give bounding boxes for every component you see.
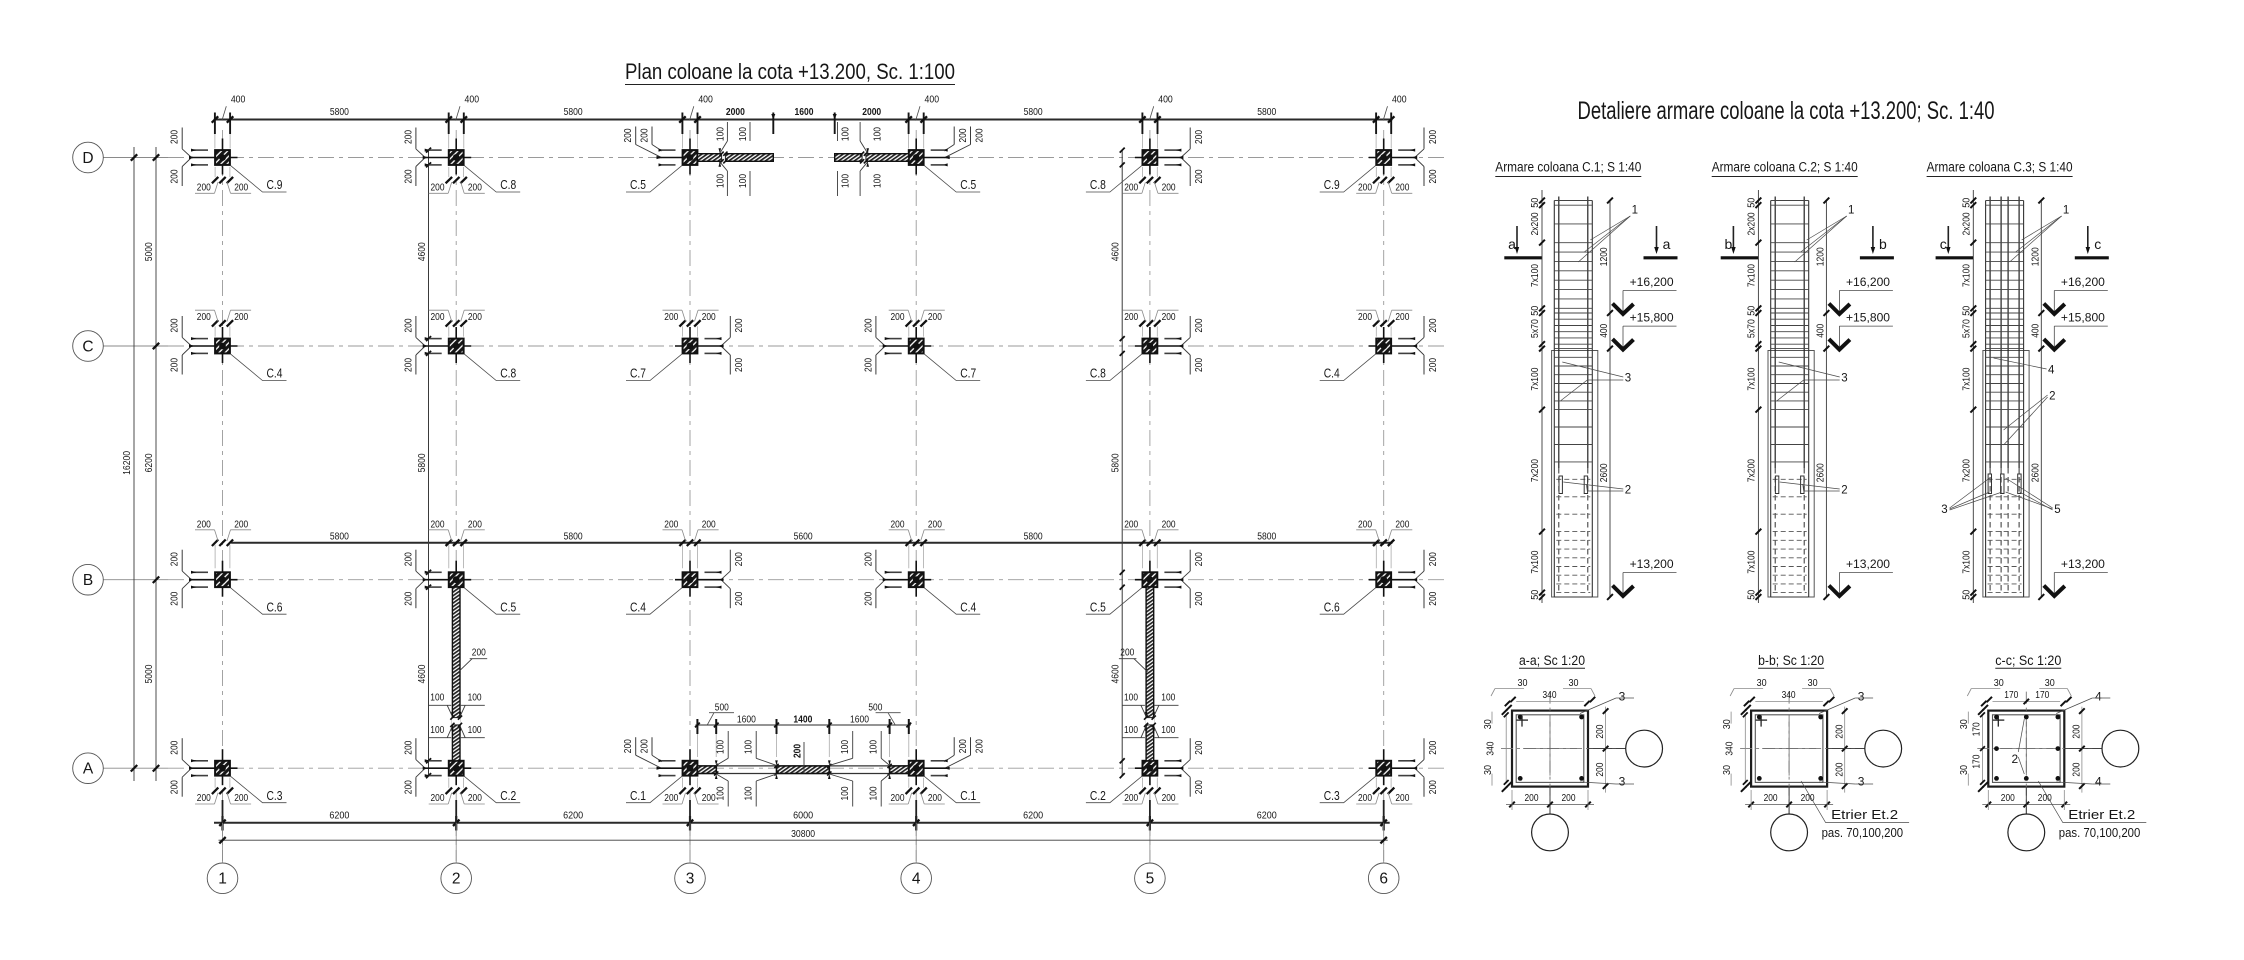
svg-text:7x100: 7x100	[1747, 550, 1758, 573]
right dimension line 1200/400/2600 C.2	[1816, 198, 1830, 600]
grid bubble 5	[1135, 863, 1166, 894]
svg-text:170: 170	[1972, 722, 1983, 736]
svg-text:30: 30	[1518, 678, 1528, 689]
vertical dimension chain line 2 (4600/5800/4600)	[417, 148, 431, 779]
svg-text:200: 200	[639, 128, 650, 142]
svg-text:1600: 1600	[737, 714, 756, 725]
svg-text:3: 3	[1841, 373, 1847, 385]
svg-text:200: 200	[2072, 724, 2083, 738]
svg-text:6: 6	[1379, 871, 1388, 888]
svg-text:200: 200	[1395, 793, 1409, 804]
svg-text:200: 200	[792, 744, 803, 758]
section mark a-a C.1	[1504, 226, 1677, 258]
svg-text:C.4: C.4	[630, 600, 646, 614]
grid bubble 1	[207, 863, 238, 894]
svg-text:200: 200	[1428, 130, 1439, 144]
svg-text:200: 200	[170, 130, 181, 144]
column C.5 at B5	[1086, 519, 1205, 614]
svg-text:200: 200	[1428, 591, 1439, 605]
svg-text:5x70: 5x70	[1747, 319, 1758, 338]
section bottom dimensions a-a	[1506, 790, 1594, 810]
svg-text:200: 200	[170, 780, 181, 794]
svg-text:200: 200	[403, 552, 414, 566]
svg-text:200: 200	[1124, 793, 1138, 804]
bar label 2 c-c	[2011, 719, 2024, 774]
vertical dimension chain line 5 (4600/5800/4600)	[1111, 148, 1125, 779]
svg-text:200: 200	[639, 739, 650, 753]
svg-text:3: 3	[1619, 689, 1626, 703]
svg-text:30: 30	[1483, 765, 1494, 775]
svg-text:1: 1	[1632, 204, 1638, 216]
svg-text:2000: 2000	[862, 107, 881, 118]
left stirrup spacing chain C.3	[1961, 190, 1976, 603]
section top dimensions a-a	[1491, 678, 1595, 706]
row B dimension chain	[231, 532, 1392, 543]
callout 3 C.2	[1777, 362, 1848, 401]
svg-text:C.6: C.6	[267, 600, 283, 614]
svg-text:200: 200	[702, 793, 716, 804]
svg-text:200: 200	[234, 183, 248, 194]
svg-text:200: 200	[1395, 519, 1409, 530]
grid axis 5	[1149, 130, 1151, 861]
column C.3 at A1	[170, 738, 287, 804]
column C.9 at D6	[1320, 128, 1439, 194]
svg-text:C.4: C.4	[1324, 367, 1340, 381]
detail title Armare coloana C.3	[1927, 160, 2073, 177]
svg-text:Armare coloana C.3; S 1:40: Armare coloana C.3; S 1:40	[1927, 160, 2073, 175]
svg-text:200: 200	[958, 128, 969, 142]
wall on axis 2 between rows B and A	[429, 587, 488, 761]
svg-text:5600: 5600	[794, 532, 813, 543]
grid bubble 6	[1368, 863, 1399, 894]
svg-text:4: 4	[2048, 364, 2055, 376]
svg-text:200: 200	[403, 130, 414, 144]
svg-text:200: 200	[1428, 552, 1439, 566]
svg-text:3: 3	[1858, 775, 1865, 789]
svg-text:200: 200	[1428, 780, 1439, 794]
svg-text:100: 100	[716, 127, 727, 141]
svg-text:100: 100	[1161, 693, 1175, 704]
section left dimensions a-a	[1483, 705, 1512, 792]
svg-text:C.6: C.6	[1324, 600, 1340, 614]
svg-text:200: 200	[664, 519, 678, 530]
svg-text:50: 50	[1961, 589, 1972, 599]
svg-text:C.9: C.9	[267, 178, 283, 192]
svg-text:C.5: C.5	[630, 178, 646, 192]
section mark b-b C.2	[1721, 226, 1894, 258]
svg-text:200: 200	[431, 793, 445, 804]
svg-text:200: 200	[2072, 762, 2083, 776]
svg-text:200: 200	[403, 318, 414, 332]
svg-text:1200: 1200	[1816, 247, 1827, 266]
grid axis B	[104, 579, 1448, 581]
svg-text:C.4: C.4	[267, 367, 283, 381]
callout 2 C.2	[1780, 482, 1848, 497]
svg-text:200: 200	[170, 740, 181, 754]
svg-text:7x200: 7x200	[1747, 459, 1758, 482]
column C.4 at B3	[626, 519, 745, 614]
wall row D between axes 3 and 4, right segment	[835, 122, 909, 196]
svg-text:200: 200	[1124, 183, 1138, 194]
svg-text:50: 50	[1961, 305, 1972, 315]
svg-text:7x200: 7x200	[1961, 459, 1972, 482]
column C.5 at D4	[901, 127, 985, 193]
grid axis D	[104, 157, 1448, 159]
svg-text:Etrier Et.2: Etrier Et.2	[2068, 807, 2135, 822]
svg-text:2x200: 2x200	[1530, 212, 1541, 235]
svg-text:200: 200	[1428, 169, 1439, 183]
svg-text:+16,200: +16,200	[1846, 277, 1890, 289]
svg-text:C.8: C.8	[1090, 367, 1106, 381]
svg-text:5800: 5800	[1111, 453, 1122, 472]
svg-text:200: 200	[664, 312, 678, 323]
svg-text:2600: 2600	[1599, 463, 1610, 482]
svg-text:200: 200	[1428, 740, 1439, 754]
detail title Armare coloana C.2	[1712, 160, 1858, 177]
grid axis 4	[915, 130, 917, 861]
wall row A between axes 3 and 4 with dimension chain 500/1600/1400/1600/500	[695, 703, 911, 807]
svg-text:4600: 4600	[417, 664, 428, 683]
svg-text:200: 200	[170, 358, 181, 372]
svg-text:200: 200	[664, 793, 678, 804]
svg-text:100: 100	[873, 174, 884, 188]
svg-text:400: 400	[2031, 323, 2042, 337]
level marker +15,800 C.3	[2044, 313, 2108, 350]
svg-text:a: a	[1663, 236, 1671, 252]
svg-text:c: c	[1940, 236, 1947, 252]
svg-text:2600: 2600	[2031, 463, 2042, 482]
svg-text:200: 200	[1162, 793, 1176, 804]
callout 3 C.3	[1941, 478, 2002, 516]
svg-text:200: 200	[468, 793, 482, 804]
column C.4 at C6	[1320, 310, 1439, 380]
svg-text:5000: 5000	[144, 242, 155, 261]
svg-text:100: 100	[716, 174, 727, 188]
svg-text:340: 340	[1724, 741, 1735, 755]
top dimension chain row D	[212, 95, 1407, 149]
plan title	[625, 59, 955, 85]
grid bubble 2	[441, 863, 472, 894]
level marker +15,800 C.2	[1829, 313, 1893, 350]
svg-text:+15,800: +15,800	[1630, 313, 1674, 325]
svg-text:50: 50	[1747, 305, 1758, 315]
svg-text:200: 200	[403, 169, 414, 183]
svg-text:200: 200	[734, 552, 745, 566]
grid axis 3	[689, 130, 691, 861]
svg-text:b: b	[1725, 236, 1733, 252]
svg-text:200: 200	[891, 793, 905, 804]
svg-text:170: 170	[2035, 690, 2049, 701]
svg-text:a: a	[1508, 236, 1516, 252]
svg-text:30: 30	[1959, 765, 1970, 775]
svg-text:500: 500	[715, 703, 729, 714]
svg-text:7x100: 7x100	[1961, 550, 1972, 573]
svg-text:200: 200	[2001, 793, 2015, 804]
section right dimensions b-b	[1834, 707, 1847, 793]
svg-text:5800: 5800	[417, 453, 428, 472]
wall row D between axes 3 and 4, left segment	[697, 122, 773, 196]
svg-text:7x100: 7x100	[1961, 264, 1972, 287]
svg-text:C.5: C.5	[1090, 600, 1106, 614]
svg-text:200: 200	[1562, 793, 1576, 804]
svg-text:200: 200	[472, 648, 486, 659]
svg-text:1400: 1400	[793, 714, 812, 725]
section right dimensions a-a	[1595, 707, 1608, 793]
svg-text:b-b; Sc 1:20: b-b; Sc 1:20	[1758, 653, 1824, 668]
svg-text:200: 200	[928, 793, 942, 804]
column C.9 at D1	[170, 128, 287, 194]
svg-text:3: 3	[1625, 373, 1631, 385]
svg-text:C.2: C.2	[500, 789, 516, 803]
grid axis 1	[222, 130, 224, 861]
stirrup label Etrier Et.2 c-c	[2038, 781, 2146, 840]
svg-text:1: 1	[2063, 204, 2069, 216]
svg-text:C.1: C.1	[630, 789, 646, 803]
svg-text:200: 200	[863, 591, 874, 605]
svg-text:16200: 16200	[122, 451, 133, 475]
level marker +16,200 C.1	[1613, 277, 1677, 314]
svg-text:D: D	[82, 150, 93, 167]
svg-text:C.7: C.7	[960, 367, 976, 381]
level marker +16,200 C.2	[1829, 277, 1893, 314]
column C.5 at D3	[623, 127, 705, 193]
svg-text:+13,200: +13,200	[2061, 559, 2105, 571]
svg-text:5800: 5800	[1257, 107, 1276, 118]
svg-text:200: 200	[974, 739, 985, 753]
svg-text:200: 200	[468, 183, 482, 194]
svg-text:4: 4	[912, 871, 921, 888]
section square c-c	[1977, 692, 2101, 815]
column C.7 at C3	[626, 310, 745, 380]
level marker +13,200 C.3	[2044, 559, 2108, 596]
bottom dimension total 30800	[219, 828, 1388, 844]
svg-text:3: 3	[1619, 775, 1626, 789]
callout 5 C.3	[2006, 478, 2061, 516]
svg-text:200: 200	[234, 312, 248, 323]
svg-text:200: 200	[891, 519, 905, 530]
section square b-b	[1740, 692, 1864, 815]
column C.7 at C4	[863, 310, 980, 380]
svg-text:6000: 6000	[793, 810, 813, 822]
svg-text:2x200: 2x200	[1747, 212, 1758, 235]
column elevation C.3	[1983, 197, 2029, 598]
svg-text:1: 1	[218, 871, 227, 888]
svg-text:100: 100	[869, 740, 880, 754]
svg-text:5800: 5800	[564, 107, 583, 118]
svg-text:50: 50	[1747, 197, 1758, 207]
svg-text:200: 200	[197, 793, 211, 804]
svg-text:200: 200	[431, 312, 445, 323]
svg-text:200: 200	[170, 591, 181, 605]
callout 2 C.1	[1563, 482, 1631, 497]
svg-text:C.4: C.4	[960, 600, 976, 614]
svg-text:6200: 6200	[329, 810, 349, 822]
svg-text:200: 200	[1120, 648, 1134, 659]
svg-text:400: 400	[1599, 323, 1610, 337]
svg-text:200: 200	[1162, 312, 1176, 323]
svg-text:30: 30	[1722, 765, 1733, 775]
left stirrup spacing chain C.2	[1747, 190, 1762, 603]
left dimension chain total 16200	[122, 147, 137, 781]
svg-text:4600: 4600	[1111, 242, 1122, 261]
svg-text:5000: 5000	[144, 664, 155, 683]
column elevation C.2	[1768, 197, 1814, 598]
svg-text:170: 170	[2004, 690, 2018, 701]
section bottom dimensions b-b	[1745, 790, 1833, 810]
svg-text:200: 200	[1194, 740, 1205, 754]
svg-text:200: 200	[1194, 780, 1205, 794]
svg-text:200: 200	[1194, 130, 1205, 144]
svg-text:340: 340	[1782, 690, 1796, 701]
column C.1 at A3	[623, 737, 719, 804]
svg-text:pas. 70,100,200: pas. 70,100,200	[1822, 825, 1904, 840]
callout 3 C.1	[1560, 362, 1631, 401]
svg-text:6200: 6200	[563, 810, 583, 822]
svg-text:1200: 1200	[1599, 247, 1610, 266]
svg-text:5: 5	[2054, 504, 2060, 516]
svg-text:200: 200	[234, 519, 248, 530]
svg-text:3: 3	[1858, 689, 1865, 703]
svg-text:200: 200	[1124, 519, 1138, 530]
column C.5 at B2	[403, 519, 520, 614]
svg-text:200: 200	[1595, 762, 1606, 776]
svg-text:2600: 2600	[1816, 463, 1827, 482]
svg-text:200: 200	[928, 312, 942, 323]
svg-text:Armare coloana C.1; S 1:40: Armare coloana C.1; S 1:40	[1495, 160, 1641, 175]
svg-text:c-c; Sc 1:20: c-c; Sc 1:20	[1995, 653, 2061, 668]
svg-text:b: b	[1879, 236, 1887, 252]
svg-text:100: 100	[744, 786, 755, 800]
svg-text:200: 200	[197, 312, 211, 323]
svg-text:100: 100	[716, 740, 727, 754]
detail title Armare coloana C.1	[1495, 160, 1641, 177]
svg-text:200: 200	[431, 519, 445, 530]
svg-text:200: 200	[1194, 358, 1205, 372]
svg-text:+13,200: +13,200	[1630, 559, 1674, 571]
svg-text:200: 200	[197, 519, 211, 530]
column C.4 at C1	[170, 310, 287, 380]
svg-text:1: 1	[1848, 204, 1854, 216]
svg-text:200: 200	[170, 318, 181, 332]
grid axis A	[104, 767, 1448, 769]
svg-text:100: 100	[841, 174, 852, 188]
svg-text:200: 200	[928, 519, 942, 530]
svg-text:6200: 6200	[144, 453, 155, 472]
grid axis C	[104, 345, 1448, 347]
column elevation C.1	[1552, 197, 1598, 598]
svg-text:50: 50	[1530, 589, 1541, 599]
svg-text:5800: 5800	[1024, 107, 1043, 118]
svg-text:340: 340	[1543, 690, 1557, 701]
svg-text:2: 2	[1625, 485, 1631, 497]
section title c-c	[1995, 653, 2061, 668]
svg-text:200: 200	[1194, 552, 1205, 566]
section left dimensions c-c	[1959, 705, 1988, 792]
svg-text:200: 200	[734, 358, 745, 372]
section right dimensions c-c	[2072, 707, 2085, 793]
callout 1 C.3	[2010, 204, 2070, 262]
svg-text:200: 200	[1395, 312, 1409, 323]
svg-text:200: 200	[702, 312, 716, 323]
svg-text:7x100: 7x100	[1530, 367, 1541, 390]
svg-text:200: 200	[702, 519, 716, 530]
section bottom dimensions c-c	[1982, 790, 2070, 810]
svg-text:200: 200	[170, 169, 181, 183]
section left dimensions b-b	[1722, 705, 1751, 792]
callout 1 C.2	[1795, 204, 1855, 262]
svg-text:200: 200	[974, 128, 985, 142]
svg-text:30: 30	[1808, 678, 1818, 689]
svg-text:50: 50	[1530, 305, 1541, 315]
svg-text:3: 3	[686, 871, 695, 888]
details title	[1578, 97, 1995, 125]
svg-text:+15,800: +15,800	[2061, 313, 2105, 325]
section detail bubble right a-a	[1588, 730, 1663, 767]
svg-text:200: 200	[468, 519, 482, 530]
svg-text:+15,800: +15,800	[1846, 313, 1890, 325]
svg-text:Plan coloane la cota +13.200,: Plan coloane la cota +13.200, Sc. 1:100	[625, 59, 955, 84]
wall on axis 5 between rows B and A	[1119, 587, 1179, 761]
svg-text:6200: 6200	[1257, 810, 1277, 822]
svg-text:200: 200	[891, 312, 905, 323]
column C.8 at C2	[403, 310, 520, 380]
grid axis 6	[1383, 130, 1385, 861]
svg-text:200: 200	[1194, 591, 1205, 605]
svg-text:5800: 5800	[564, 532, 583, 543]
svg-text:C: C	[82, 338, 93, 355]
section detail bubble bottom c-c	[2008, 787, 2045, 851]
svg-text:200: 200	[623, 739, 634, 753]
svg-text:200: 200	[403, 740, 414, 754]
svg-text:7x100: 7x100	[1747, 367, 1758, 390]
callout 1 C.1	[1578, 204, 1638, 262]
svg-text:C.1: C.1	[960, 789, 976, 803]
svg-text:100: 100	[468, 725, 482, 736]
svg-text:200: 200	[1801, 793, 1815, 804]
svg-text:C.2: C.2	[1090, 789, 1106, 803]
svg-text:100: 100	[468, 693, 482, 704]
section detail bubble bottom a-a	[1532, 787, 1569, 851]
svg-text:200: 200	[1162, 183, 1176, 194]
svg-text:2000: 2000	[726, 107, 745, 118]
svg-text:2: 2	[2011, 752, 2018, 766]
column C.8 at D2	[403, 128, 520, 194]
svg-text:c: c	[2094, 236, 2101, 252]
svg-text:400: 400	[1158, 95, 1173, 106]
column C.6 at B6	[1320, 519, 1439, 614]
svg-text:7x100: 7x100	[1530, 550, 1541, 573]
svg-text:100: 100	[430, 693, 444, 704]
section callouts 4 c-c	[2056, 689, 2110, 788]
svg-text:1600: 1600	[795, 107, 814, 118]
svg-text:200: 200	[734, 591, 745, 605]
svg-text:3: 3	[1941, 504, 1947, 516]
svg-text:5x70: 5x70	[1961, 319, 1972, 338]
column C.4 at B4	[863, 519, 980, 614]
svg-text:200: 200	[1194, 169, 1205, 183]
svg-text:400: 400	[465, 95, 480, 106]
svg-text:30: 30	[1757, 678, 1767, 689]
svg-text:4600: 4600	[417, 242, 428, 261]
svg-text:100: 100	[738, 127, 749, 141]
svg-text:7x100: 7x100	[1530, 264, 1541, 287]
stirrup label Etrier Et.2 b-b	[1801, 781, 1909, 840]
svg-text:200: 200	[863, 318, 874, 332]
svg-text:200: 200	[1358, 183, 1372, 194]
section detail bubble bottom b-b	[1771, 787, 1808, 851]
level marker +16,200 C.3	[2044, 277, 2108, 314]
svg-text:200: 200	[958, 739, 969, 753]
